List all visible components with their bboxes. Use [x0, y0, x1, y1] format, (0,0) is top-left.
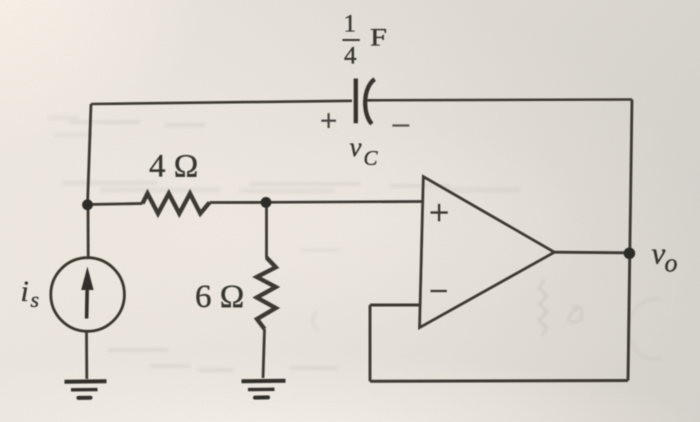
op-amp U1 triangle — [420, 177, 555, 328]
wire: right vertical, top corner down to output node — [630, 100, 632, 254]
capacitor plus polarity sign — [321, 113, 336, 128]
wire: node B down to resistor R2 top — [265, 203, 268, 259]
wire: node B to op-amp noninverting input — [266, 200, 424, 204]
current source arrowhead — [81, 267, 93, 291]
ground symbol under 6ohm resistor — [242, 381, 286, 398]
wire: op-amp output to node C — [554, 251, 629, 254]
wire: right vertical, node C down to bottom corner — [628, 253, 630, 381]
wire: node A down to current source top — [87, 205, 90, 258]
current source IS circle — [51, 258, 125, 332]
current source arrow shaft — [85, 288, 89, 319]
wire: left vertical from top corner down to node A — [88, 104, 92, 205]
capacitor minus polarity sign — [392, 124, 409, 126]
node B junction dot — [261, 197, 272, 208]
node C output junction dot — [624, 248, 636, 260]
capacitor C1 right curved plate — [365, 79, 375, 124]
fraction bar of 1/4 F value — [342, 39, 359, 41]
wire: resistor R2 bottom to ground — [263, 329, 265, 378]
wire: resistor R1 to node B — [210, 201, 267, 204]
wire: feedback to op-amp inverting input — [370, 304, 422, 307]
wire: bottom feedback run — [370, 379, 628, 383]
op-amp plus input label — [430, 204, 448, 222]
wire: current source bottom to ground — [85, 332, 88, 380]
wire: feedback up segment — [369, 305, 372, 381]
resistor R2 6ohm zigzag — [257, 258, 276, 330]
resistor R1 4ohm zigzag — [143, 194, 210, 214]
ground symbol under current source — [65, 381, 107, 398]
wire: top loop, capacitor to right corner — [367, 98, 632, 101]
op-amp minus input label — [430, 290, 447, 293]
node A junction dot — [82, 199, 93, 210]
capacitor C1 left plate — [354, 79, 358, 124]
wire: top loop, left segment to capacitor — [91, 101, 352, 104]
wire: node A to resistor R1 left end — [88, 204, 143, 205]
